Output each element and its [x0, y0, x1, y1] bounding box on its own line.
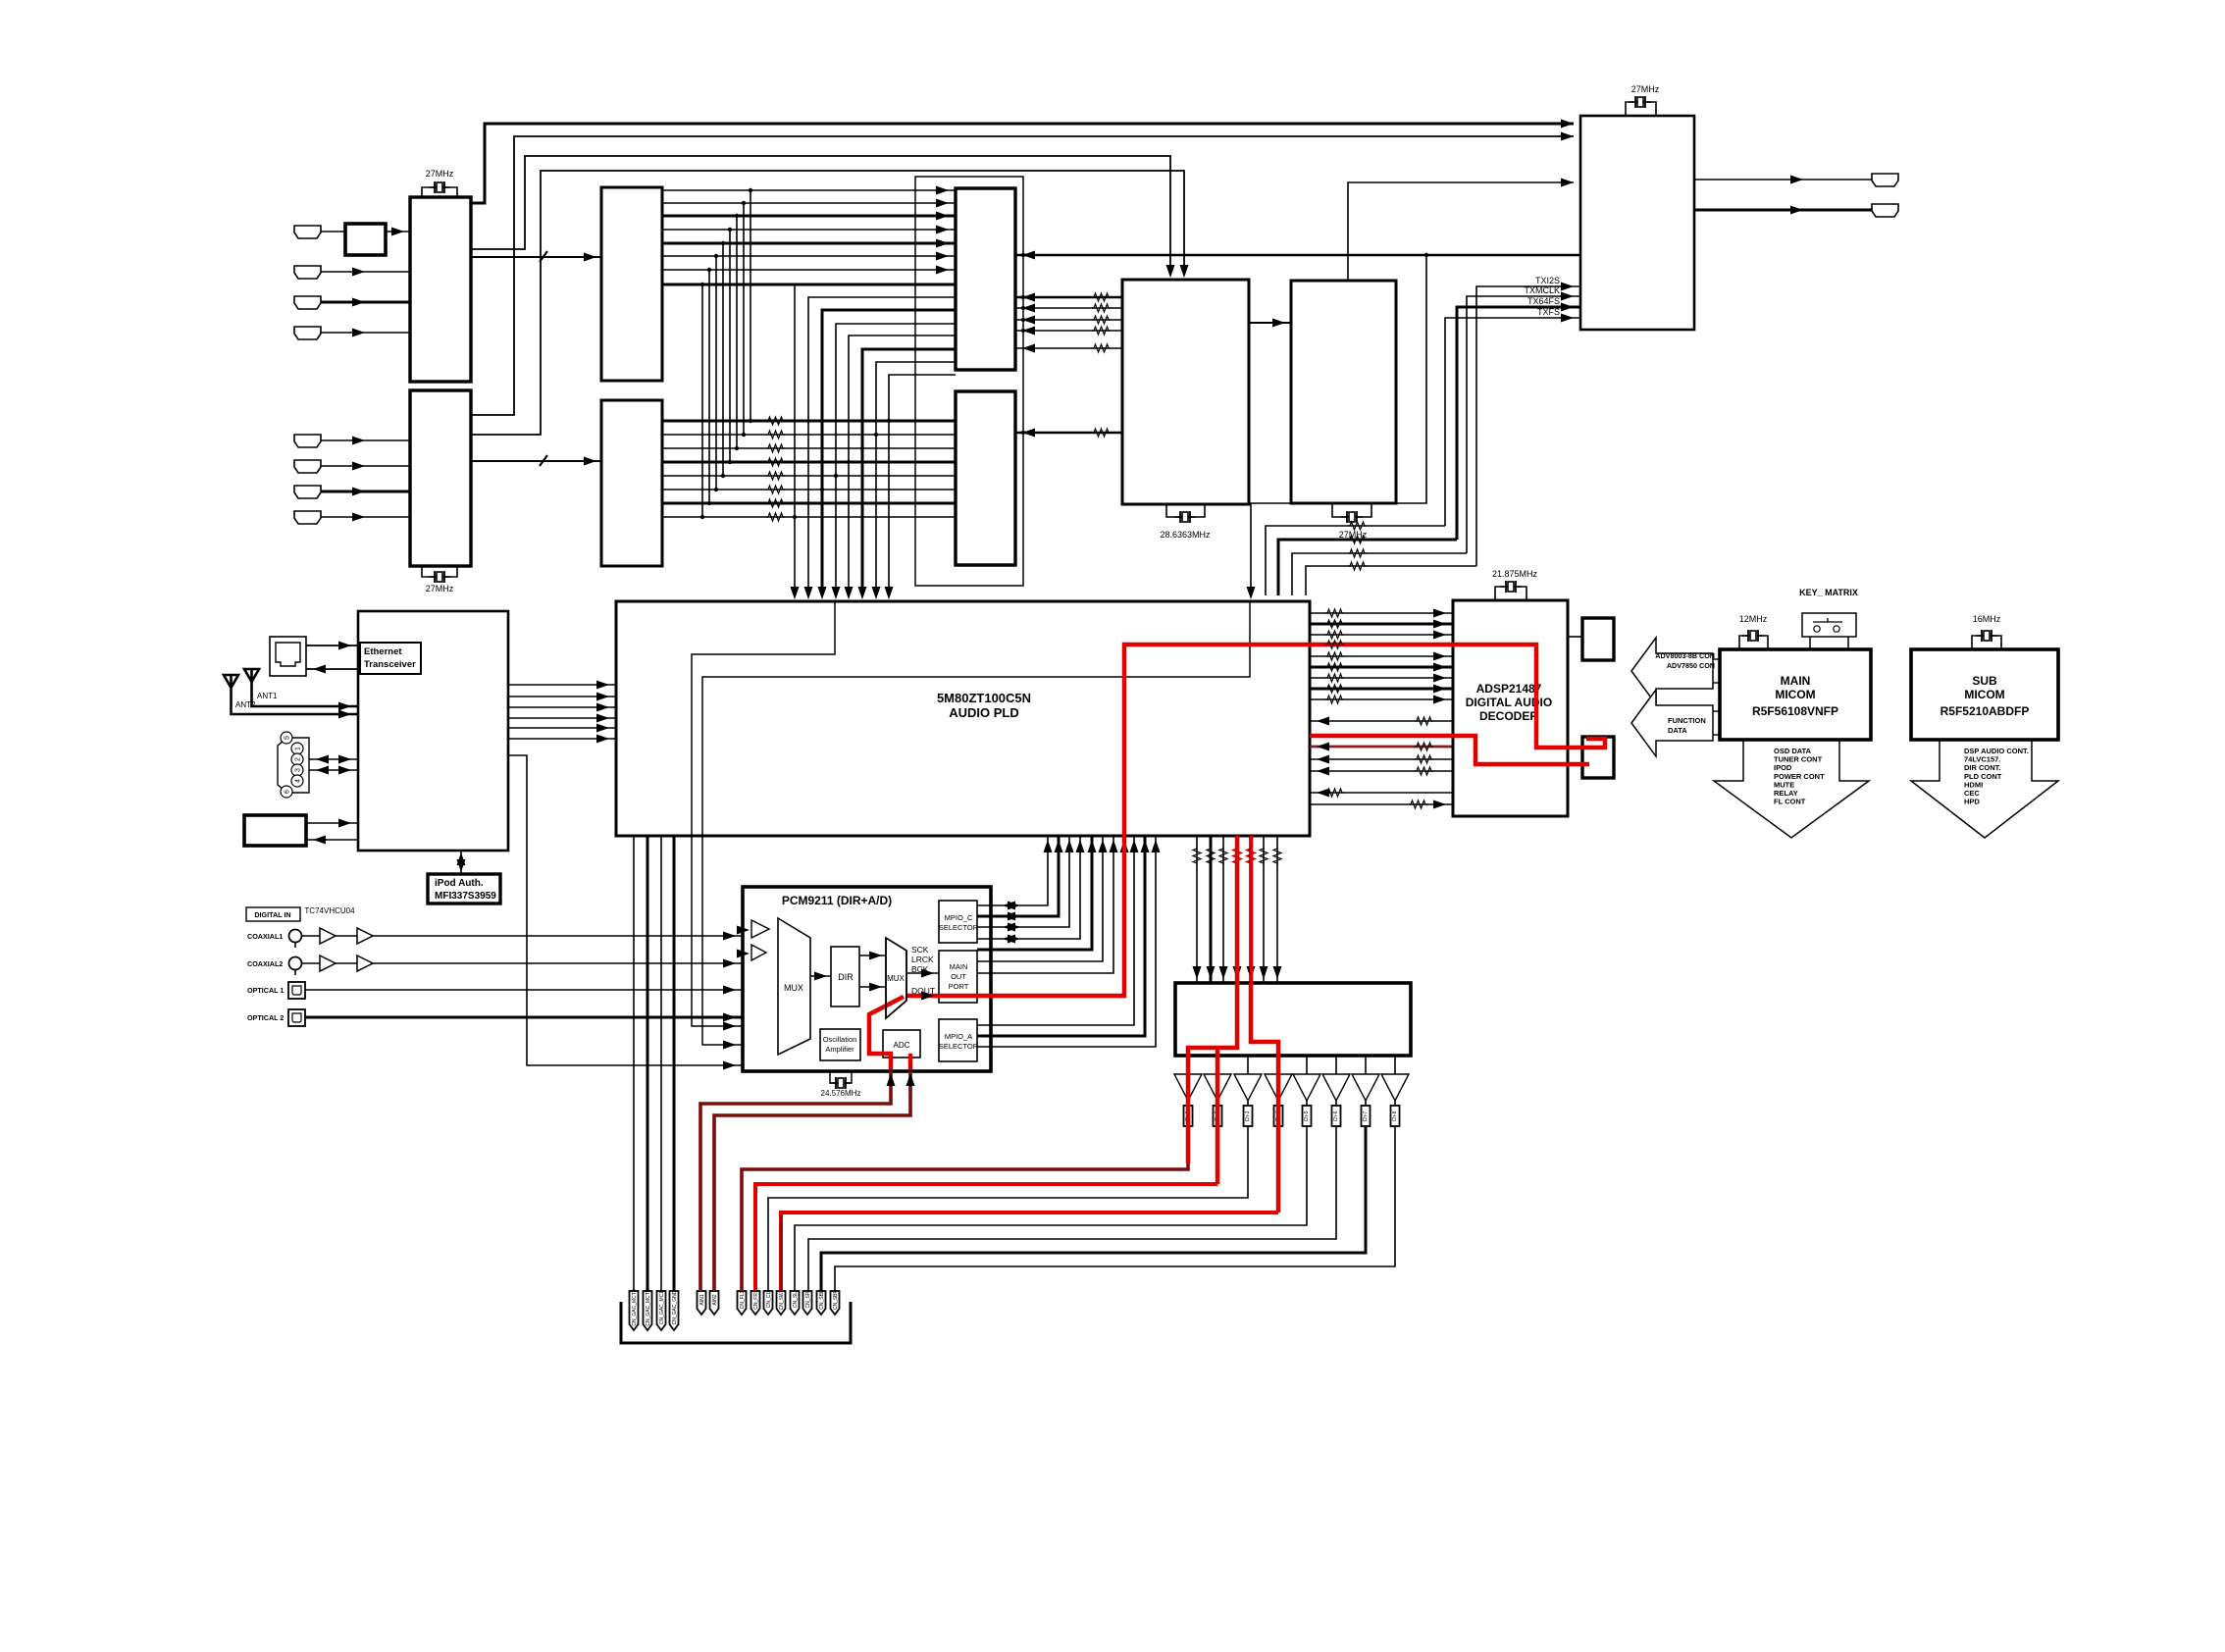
wire TXI2S loop upper — [1476, 286, 1580, 566]
connector pin cluster — [278, 738, 309, 793]
svg-text:ADV8003-8B CON: ADV8003-8B CON — [1655, 651, 1715, 660]
wire B1 to C1 y220 — [662, 215, 956, 218]
svg-text:SELECTOR: SELECTOR — [939, 923, 979, 932]
wire ADSP to PLD y786 — [1310, 770, 1453, 772]
wire PCM to PLD bottom x1068 — [977, 836, 1048, 905]
svg-text:5M80ZT100C5N: 5M80ZT100C5N — [937, 691, 1031, 705]
connector CN out 4 — [1274, 1106, 1283, 1126]
wire loop around U_C1/U_C2 — [915, 177, 1023, 586]
svg-text:SUB: SUB — [1972, 674, 1997, 688]
crystal X1 27MHz bracket — [422, 187, 457, 197]
wire DSP to U_H1 — [1568, 636, 1582, 638]
crystal X4 27MHz bracket — [1332, 504, 1371, 517]
crystal X5 27MHz bracket — [1626, 102, 1656, 116]
svg-text:COAXIAL1: COAXIAL1 — [247, 932, 283, 941]
svg-text:FUNCTION: FUNCTION — [1668, 716, 1706, 725]
wire buffer out x1362 to CN x824 — [808, 1126, 1336, 1291]
wire PCM to PLD bottom x1178 — [977, 836, 1156, 1047]
DIR/ADC U_PCM PCM9211 — [743, 887, 991, 1071]
buffer amp 4 — [1265, 1074, 1292, 1101]
wire F out2 — [1694, 209, 1872, 212]
wire bus drop x751 — [736, 216, 738, 448]
svg-text:Ch-8: Ch-8 — [1392, 1110, 1398, 1121]
svg-text:TXMCLK: TXMCLK — [1524, 285, 1560, 295]
wire PLD to G x1247 — [1222, 836, 1224, 983]
wire C1 to U_F y260 — [1015, 254, 1580, 257]
wire bus drop x730 — [715, 256, 717, 490]
svg-text:TXI2S: TXI2S — [1535, 276, 1560, 285]
red vertical resistors — [1233, 847, 1241, 865]
wire HDMI4 to U_A1 — [321, 332, 410, 334]
svg-text:27MHz: 27MHz — [426, 584, 454, 594]
svg-text:CN_SBL: CN_SBL — [819, 1290, 825, 1310]
maroon ADC wires from CN to PCM — [700, 1071, 891, 1291]
connector CN_SL — [791, 1291, 800, 1315]
connector HDMI in 3 — [294, 296, 321, 309]
wire D to E — [1249, 322, 1291, 324]
wire PLD bottom drop to CN3 x674 — [660, 836, 662, 1291]
svg-text:MPIO_A: MPIO_A — [945, 1032, 972, 1041]
wire USB to NET — [306, 822, 358, 824]
svg-text:AIN1: AIN1 — [699, 1294, 705, 1305]
wire MUX1 to DIR — [810, 975, 831, 977]
wire B1 to C1 y261 — [662, 255, 956, 257]
wire D to C2 y441 — [1015, 432, 1122, 435]
wire TXMCLK loop upper — [1467, 296, 1580, 553]
connector CN out 6 — [1335, 1101, 1337, 1106]
wire ADSP to PLD y761 dark red — [1310, 746, 1453, 749]
wire G to buffer 5 — [1306, 1056, 1308, 1074]
svg-text:Ch-7: Ch-7 — [1363, 1110, 1369, 1121]
buffer amp 3 — [1234, 1074, 1262, 1101]
wire HDMI8 to U_A2 — [321, 516, 410, 518]
svg-text:AIN2: AIN2 — [712, 1294, 718, 1305]
wire B1 to C1 y290 — [662, 284, 956, 286]
svg-text:Ch-6: Ch-6 — [1333, 1110, 1339, 1121]
wire buffer out x1422 to CN x851 — [835, 1126, 1395, 1291]
MUX1 trapezoid — [778, 918, 810, 1055]
svg-text:21.875MHz: 21.875MHz — [1492, 569, 1538, 579]
svg-text:12MHz: 12MHz — [1739, 614, 1768, 624]
svg-text:CN_SBR: CN_SBR — [833, 1289, 839, 1310]
wire B1 to C1 y234 — [662, 229, 956, 231]
svg-text:CN_GAC_MC1: CN_GAC_MC1 — [659, 1291, 665, 1324]
wire buffer out x1392 to CN x837 — [821, 1126, 1366, 1291]
svg-text:ADSP21487: ADSP21487 — [1476, 682, 1542, 696]
MPIO_A SELECTOR box — [939, 1019, 977, 1061]
junction loop x1043 y337 — [1021, 329, 1025, 333]
wire HDMI6 to U_A2 — [321, 465, 410, 467]
wire NET to PLD y753 — [508, 738, 616, 740]
svg-text:DIGITAL AUDIO: DIGITAL AUDIO — [1466, 696, 1552, 709]
wire C1 row y303 down to PLD top x824 — [808, 297, 956, 595]
wire B2 to C2 row y527 — [662, 516, 956, 518]
svg-text:SELECTOR: SELECTOR — [939, 1042, 979, 1051]
wire MUX2 to MAIN OUT — [906, 972, 939, 974]
HDMI switch U_A2 — [410, 390, 471, 566]
wire F out1 — [1694, 179, 1872, 181]
svg-text:MPIO_C: MPIO_C — [945, 913, 973, 922]
svg-text:MUX: MUX — [784, 983, 803, 993]
wire HDMI1 to ESD block — [321, 231, 345, 232]
wire NET to PLD y721 — [508, 706, 616, 708]
wire PLD to ADSP y713 — [1310, 698, 1453, 700]
audio output buffer block U_G — [1175, 983, 1411, 1056]
svg-text:Ethernet: Ethernet — [364, 646, 402, 657]
bus A1 to B1 — [471, 256, 602, 258]
buffer amp 2 — [1204, 1074, 1231, 1101]
wire L2 A2 to U_F — [471, 136, 1574, 415]
svg-text:Oscillation: Oscillation — [823, 1035, 857, 1044]
buffer U3c — [320, 955, 336, 971]
block arrow FUNCTION DATA — [1631, 690, 1713, 756]
crystal X1 27MHz — [429, 181, 450, 193]
svg-text:Ch-3: Ch-3 — [1245, 1110, 1251, 1121]
connector HDMI OUT 2 — [1872, 204, 1898, 217]
wire PLD to ADSP y636 — [1310, 623, 1453, 626]
wire PCM to PLD bottom x1135 — [977, 836, 1113, 973]
wire TX64FS loop upper — [1457, 307, 1580, 540]
red wires continue below triangle connectors — [1186, 1126, 1190, 1163]
HDMI small box U_H2 — [1582, 737, 1614, 778]
wire PCM to PLD bottom x1101 — [977, 836, 1080, 939]
wire ADSP to PLD y774 — [1310, 758, 1453, 760]
connector HDMI OUT 1 — [1872, 174, 1898, 186]
wire arrow1 to micom a — [1713, 658, 1720, 660]
wire ADSP to PLD y808 — [1310, 792, 1453, 794]
wire B2 to C2 row y513 — [662, 502, 956, 505]
front USB block — [244, 815, 306, 846]
connector CN_GAC_MC1 — [657, 1291, 666, 1330]
crystal X3 28.6363MHz — [1174, 511, 1196, 523]
red paths inside block G to triangles — [1188, 983, 1237, 1163]
wire PLD to G x1288 — [1263, 836, 1265, 983]
wire RJ45 to NET — [306, 645, 358, 646]
DSP U_DSP ADSP21487 — [1453, 600, 1568, 816]
crystal X9 16MHz — [1976, 630, 1997, 642]
wire PLD to ADSP y691 — [1310, 677, 1453, 679]
wire NET to USB — [306, 839, 358, 841]
svg-text:Ch-5: Ch-5 — [1304, 1110, 1310, 1121]
wire COAXIAL2 to PCM9211 — [302, 962, 743, 964]
wire NET to RJ45 — [306, 668, 358, 670]
wire L1 A1 to U_F — [471, 124, 1574, 203]
wire TXFS loop upper — [1445, 318, 1580, 526]
svg-text:PORT: PORT — [949, 982, 969, 991]
wire buffer out x1332 to CN x810 — [795, 1126, 1307, 1291]
wire W2 through PLD to PCM — [702, 601, 1250, 1045]
wire OPTICAL2 to PCM9211 — [305, 1016, 743, 1019]
wire PLD to G x1302 — [1276, 836, 1278, 983]
svg-text:ADC: ADC — [894, 1041, 910, 1050]
red DOUT arrow into PLD bottom — [1120, 840, 1129, 852]
wire PCM to PLD bottom x1167 — [977, 836, 1145, 1036]
svg-text:DECODER: DECODER — [1479, 709, 1538, 723]
svg-text:16MHz: 16MHz — [1973, 614, 2001, 624]
svg-text:OPTICAL 1: OPTICAL 1 — [247, 986, 284, 995]
svg-text:FL CONT: FL CONT — [1774, 798, 1806, 806]
svg-text:24.576MHz: 24.576MHz — [821, 1089, 861, 1098]
wire keymatrix to micom a — [1809, 637, 1811, 649]
wire E top to U_F — [1348, 182, 1574, 281]
wire C1 row y316 down to PLD top x838 — [822, 310, 956, 595]
wire TXMCLK loop to PLD top — [1292, 553, 1467, 595]
svg-text:CN_GAC_MCT2: CN_GAC_MCT2 — [646, 1289, 651, 1325]
crystal X3 28.6363MHz bracket — [1166, 504, 1205, 517]
wire bus drop x744 — [729, 230, 731, 462]
connector CN_FR1 — [751, 1291, 760, 1315]
wire B2 to C2 row y499 — [662, 489, 956, 490]
connector CN out 1 — [1184, 1106, 1193, 1126]
connector HDMI in 5 — [294, 435, 321, 447]
connector CN_SR — [803, 1291, 812, 1315]
svg-text:CN_C1: CN_C1 — [766, 1292, 772, 1309]
svg-text:27MHz: 27MHz — [426, 169, 454, 179]
wire B1 to C1 y275 — [662, 269, 956, 271]
bus A2 to B2 — [471, 460, 602, 462]
TMDS core U_B1 — [601, 187, 662, 381]
wire B2 to C2 row y429 — [662, 420, 956, 423]
HDMI output switch U_F — [1580, 116, 1694, 330]
svg-text:PCM9211 (DIR+A/D): PCM9211 (DIR+A/D) — [782, 894, 892, 907]
wire cluster to NET 1 — [309, 758, 358, 760]
wire DIR to MUX2 b — [859, 986, 886, 988]
video processor U_D — [1122, 280, 1249, 504]
wire in7 inside — [743, 1053, 778, 1065]
svg-text:CN_SL: CN_SL — [793, 1292, 799, 1308]
wire COAXIAL1 to PCM9211 — [302, 935, 743, 937]
connector AIN2 — [710, 1291, 719, 1315]
crystal X6 21.875MHz — [1500, 581, 1522, 593]
crystal X8 12MHz bracket — [1739, 636, 1768, 649]
connector CN_GAC_MCT2 — [644, 1291, 652, 1330]
bracket to next sheet — [621, 1302, 851, 1343]
wire L3 A1 to U_D top — [471, 156, 1170, 273]
svg-text:MICOM: MICOM — [1775, 688, 1815, 701]
svg-text:ADV7850 CON: ADV7850 CON — [1667, 661, 1715, 670]
wire in5 inside — [743, 1025, 778, 1027]
wire PCM to PLD bottom x1113 — [977, 836, 1092, 950]
connector HDMI in 2 — [294, 266, 321, 279]
buffer in PCM 1 — [751, 920, 769, 938]
wire HDMI7 to U_A2 — [321, 490, 410, 493]
svg-text:CN_FR1: CN_FR1 — [753, 1290, 759, 1310]
label box DIGITAL IN — [246, 907, 300, 921]
ADC box — [883, 1030, 920, 1058]
HDMI transmitter U_E — [1291, 281, 1396, 503]
svg-text:COAXIAL2: COAXIAL2 — [247, 959, 283, 968]
wire PLD to ADSP y669 — [1310, 655, 1453, 657]
buffer amp 5 — [1293, 1074, 1320, 1101]
DIR box — [831, 947, 859, 1007]
network module U_NET — [358, 611, 508, 851]
HDMI switch U_A1 — [410, 197, 471, 382]
wire D to C1 y337 — [1015, 330, 1122, 332]
connector CN out 8 — [1394, 1101, 1396, 1106]
wire cluster to NET 2 — [309, 769, 358, 771]
wire C1 row y369 down to PLD top x893 — [876, 362, 956, 595]
connector CN_GAC_MCT3 — [630, 1291, 639, 1330]
wire B1 to C1 y207 — [662, 202, 956, 204]
svg-text:AUDIO PLD: AUDIO PLD — [949, 705, 1019, 720]
wire NET to PCM9211 bottom input — [508, 755, 743, 1065]
wire PLD to ADSP y820 — [1310, 803, 1453, 805]
crystal X2 27MHz — [429, 571, 450, 583]
SUB MICOM U_SC R5F5210ABDFP — [1911, 649, 2058, 740]
red path DOUT: PCM9211 DIR output through PLD to DSP and U_H2 — [906, 645, 1605, 996]
wire bus drop x723 — [708, 270, 710, 503]
wire TXFS loop to PLD top — [1266, 526, 1445, 595]
svg-text:MAIN: MAIN — [950, 962, 968, 971]
connector CN_SBR — [831, 1291, 840, 1315]
wire PLD to ADSP y680 — [1310, 666, 1453, 669]
wire F-line drop to PLD top — [1251, 255, 1426, 595]
red path ADC input branch — [869, 997, 904, 1069]
wire DIR to MUX2 a — [859, 955, 886, 956]
wire C1 row y382 down to PLD top x906 — [889, 375, 956, 595]
connector CN_GAC_GND — [670, 1291, 679, 1330]
buffer U3d — [357, 955, 373, 971]
svg-text:MAIN: MAIN — [1781, 674, 1811, 688]
wire ESD to U_A1 — [386, 231, 410, 232]
wire B1 to C1 y248 — [662, 242, 956, 245]
connector CN out 3 — [1247, 1101, 1249, 1106]
wire G to buffer 8 — [1394, 1056, 1396, 1074]
connector HDMI in 1 — [294, 226, 321, 238]
svg-text:CN_GAC_MCT3: CN_GAC_MCT3 — [632, 1289, 638, 1325]
wire B2 to C2 row y457 — [662, 447, 956, 449]
connector CN_C1 — [764, 1291, 773, 1315]
svg-text:MICOM: MICOM — [1964, 688, 2004, 701]
connector HDMI in 4 — [294, 327, 321, 339]
wire C1 row y330 down to PLD top x852 — [836, 324, 956, 595]
wire ADSP to PLD y735 — [1310, 720, 1453, 722]
MAIN MICOM U_MC R5F56108VNFP — [1720, 649, 1871, 740]
antenna ANT1 — [244, 669, 358, 706]
svg-text:Amplifier: Amplifier — [825, 1045, 854, 1054]
wire TXI2S loop to PLD top — [1306, 566, 1476, 595]
buffer amp 8 — [1381, 1074, 1409, 1101]
svg-text:SCK: SCK — [911, 945, 929, 955]
wire B2 to C2 row y485 — [662, 475, 956, 477]
connector HDMI in 6 — [294, 460, 321, 473]
wire opt1 inside — [743, 989, 778, 991]
wire PLD bottom drop to CN4 x687 — [673, 836, 676, 1291]
svg-text:Transceiver: Transceiver — [364, 659, 416, 670]
connector HDMI in 7 — [294, 486, 321, 498]
svg-text:R5F56108VNFP: R5F56108VNFP — [1752, 704, 1838, 718]
wire B2 to C2 row y471 — [662, 461, 956, 464]
video mux U_C1 — [956, 188, 1015, 370]
connector CN_SW1 — [777, 1291, 786, 1315]
svg-text:3: 3 — [295, 768, 302, 772]
wire C1 row y356 down to PLD top x879 — [862, 349, 956, 595]
buffer U3b — [357, 928, 373, 944]
svg-text:MFI337S3959: MFI337S3959 — [435, 891, 496, 902]
crystal X9 16MHz bracket — [1972, 636, 2001, 649]
wire opt2 inside — [743, 1016, 778, 1018]
svg-text:TX64FS: TX64FS — [1527, 296, 1560, 306]
svg-text:MUX: MUX — [887, 974, 905, 983]
svg-text:CN_SR: CN_SR — [805, 1291, 811, 1308]
svg-text:6: 6 — [285, 790, 291, 794]
svg-text:ANT2: ANT2 — [235, 700, 256, 709]
wire PCM to PLD bottom x1090 — [977, 836, 1069, 927]
crystal X6 21.875MHz bracket — [1495, 587, 1526, 600]
connector CN_SBL — [817, 1291, 826, 1315]
buffer amp 6 — [1322, 1074, 1350, 1101]
MUX2 outline over red — [886, 938, 906, 1018]
wire C1 row y342 down to PLD top x865 — [849, 336, 956, 595]
wire PLD to ADSP y647 — [1310, 634, 1453, 636]
wire B2 to C2 row y443 — [662, 434, 956, 436]
block down-arrow SUB MICOM outputs — [1911, 740, 2058, 838]
buffer in PCM 2 — [751, 945, 766, 960]
wire G to buffer 3 — [1247, 1056, 1249, 1074]
connector CN out 5 — [1306, 1101, 1308, 1106]
svg-text:DATA: DATA — [1668, 726, 1687, 735]
junction loop x1043 y260 — [1021, 253, 1025, 257]
MPIO_C SELECTOR box — [939, 901, 977, 943]
wire PLD to G x1220 — [1196, 836, 1198, 983]
ESD protection block — [345, 224, 386, 255]
wire PCM to PLD bottom x1156 — [977, 836, 1134, 1025]
connector CN out 2 — [1214, 1106, 1222, 1126]
connector CN out 7 — [1365, 1101, 1367, 1106]
junction loop x1043 y303 — [1021, 295, 1025, 299]
svg-text:CN_SW1: CN_SW1 — [779, 1289, 785, 1310]
svg-text:DIR: DIR — [838, 972, 854, 982]
connector RJ45 — [270, 637, 306, 676]
svg-text:5: 5 — [285, 736, 291, 740]
wire NET to PLD y710 — [508, 696, 616, 697]
wire NET to PLD y698 — [508, 684, 616, 686]
wire bus drop x716 — [701, 284, 703, 517]
wire bus drop x758 — [743, 203, 745, 435]
MAIN OUT PORT box — [939, 951, 977, 1003]
HDMI small box U_H1 — [1582, 618, 1614, 660]
block arrow ADV8003-8B CON / ADV7850 CON — [1631, 638, 1713, 704]
wire coax2 inside — [743, 962, 751, 964]
wire D to C1 y355 — [1015, 347, 1122, 349]
audio PLD U_PLD 5M80ZT100C5N — [616, 601, 1310, 836]
svg-text:27MHz: 27MHz — [1631, 84, 1660, 94]
crystal X2 27MHz bracket — [422, 566, 457, 577]
wire bus drop x737 — [722, 243, 724, 476]
svg-text:TC74VHCU04: TC74VHCU04 — [304, 906, 355, 915]
label box Ethernet Transceiver — [360, 643, 421, 674]
red verticals PLD bottom to block G — [1235, 836, 1240, 983]
wire keymatrix to micom b — [1847, 637, 1849, 649]
svg-text:4: 4 — [295, 779, 302, 783]
connector AIN1 — [698, 1291, 706, 1315]
crystal X4 27MHz — [1341, 511, 1363, 523]
svg-text:LRCK: LRCK — [911, 955, 934, 964]
wire PLD bottom drop to CN2 x660 — [647, 836, 649, 1291]
svg-text:CN_FL1: CN_FL1 — [740, 1290, 746, 1309]
svg-text:R5F5210ABDFP: R5F5210ABDFP — [1940, 704, 2030, 718]
wire PLD to ADSP y702 — [1310, 688, 1453, 691]
wire D to C1 y326 — [1015, 319, 1122, 321]
iPod Auth MFI337S3959 — [428, 874, 500, 903]
svg-text:CN_GAC_GND: CN_GAC_GND — [672, 1290, 678, 1324]
junction loop x1043 y314 — [1021, 306, 1025, 310]
wire bus drop x765 — [750, 190, 751, 421]
MUX2 trapezoid — [886, 938, 906, 1018]
DOUT arrowhead over red — [921, 992, 934, 1001]
crystal X7 24.576MHz bracket — [830, 1071, 852, 1083]
wire D to C1 y314 — [1015, 307, 1122, 309]
